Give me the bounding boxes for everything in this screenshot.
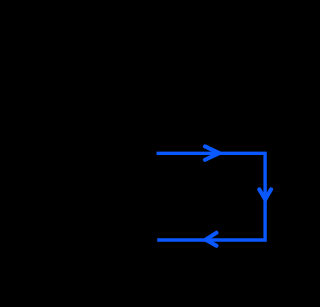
arrow right (top segment) (205, 146, 219, 159)
arrow down (right segment) (259, 189, 271, 199)
arrow left (bottom segment) (206, 233, 217, 246)
wire loop path (157, 153, 266, 240)
